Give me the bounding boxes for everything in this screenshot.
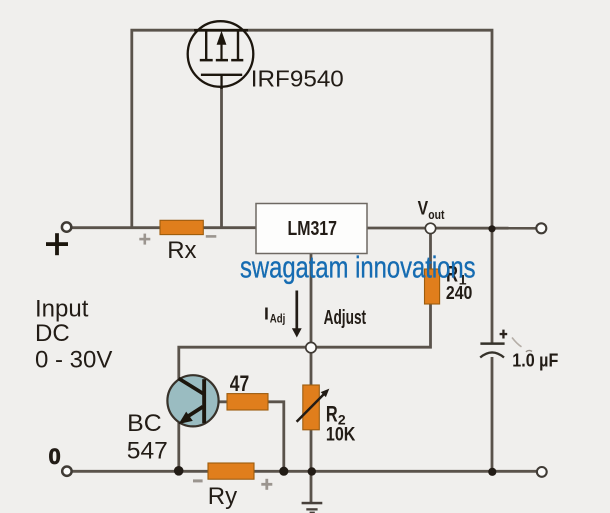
svg-text:Ry: Ry — [208, 483, 237, 510]
svg-text:R: R — [326, 402, 338, 427]
svg-text:10K: 10K — [326, 425, 356, 446]
svg-text:Rx: Rx — [167, 237, 196, 264]
svg-text:Input: Input — [35, 296, 89, 323]
svg-text:1.0 µF: 1.0 µF — [512, 351, 558, 371]
svg-text:LM317: LM317 — [288, 218, 338, 240]
svg-text:V: V — [418, 199, 429, 220]
svg-text:IRF9540: IRF9540 — [251, 66, 344, 92]
svg-text:47: 47 — [230, 371, 250, 396]
svg-text:240: 240 — [446, 282, 473, 303]
svg-text:DC: DC — [35, 320, 70, 347]
svg-text:Adjust: Adjust — [324, 307, 367, 329]
svg-text:0 - 30V: 0 - 30V — [35, 347, 112, 374]
svg-text:I: I — [264, 304, 269, 324]
svg-text:out: out — [428, 208, 445, 222]
svg-text:0: 0 — [49, 444, 61, 469]
svg-text:BC: BC — [127, 410, 162, 437]
svg-text:Adj: Adj — [270, 313, 286, 325]
svg-text:547: 547 — [127, 437, 168, 464]
svg-text:swagatam innovations: swagatam innovations — [240, 250, 476, 284]
